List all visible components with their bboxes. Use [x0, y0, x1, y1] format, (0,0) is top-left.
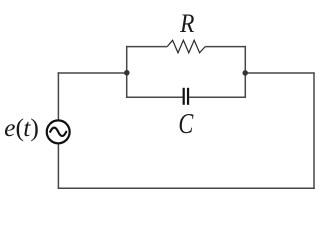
wire: bottom rail [58, 187, 315, 189]
wire: top branch right lead from resistor [205, 46, 246, 48]
wire: right vertical [313, 72, 315, 189]
label e(t) [4, 113, 39, 142]
label R [179, 9, 194, 38]
wire: bottom branch left lead to capacitor [126, 96, 183, 98]
svg-text:R: R [179, 9, 194, 38]
wire: right horizontal from right node to right vertical [245, 72, 315, 74]
node B (right junction dot) [242, 70, 248, 76]
node A (left junction dot) [124, 70, 130, 76]
wire: left vertical lower (source circle bottom to bottom rail) [57, 143, 59, 189]
svg-text:e: e [4, 113, 15, 142]
wire: bottom branch right lead from capacitor [189, 96, 246, 98]
wire: top-left horizontal from source branch to left node [58, 72, 127, 74]
wire: parallel block right vertical [244, 46, 246, 98]
wire: top branch left lead to resistor [126, 46, 167, 48]
label C [178, 107, 194, 139]
resistor R (zigzag) [167, 40, 205, 53]
wire: parallel block left vertical [126, 46, 128, 98]
wire: left vertical upper (corner down to source circle top) [57, 72, 59, 120]
svg-text:): ) [30, 113, 39, 142]
voltage source e(t): circle with sine symbol [47, 120, 70, 143]
capacitor C (two plates) [184, 88, 188, 105]
svg-text:C: C [178, 107, 194, 139]
